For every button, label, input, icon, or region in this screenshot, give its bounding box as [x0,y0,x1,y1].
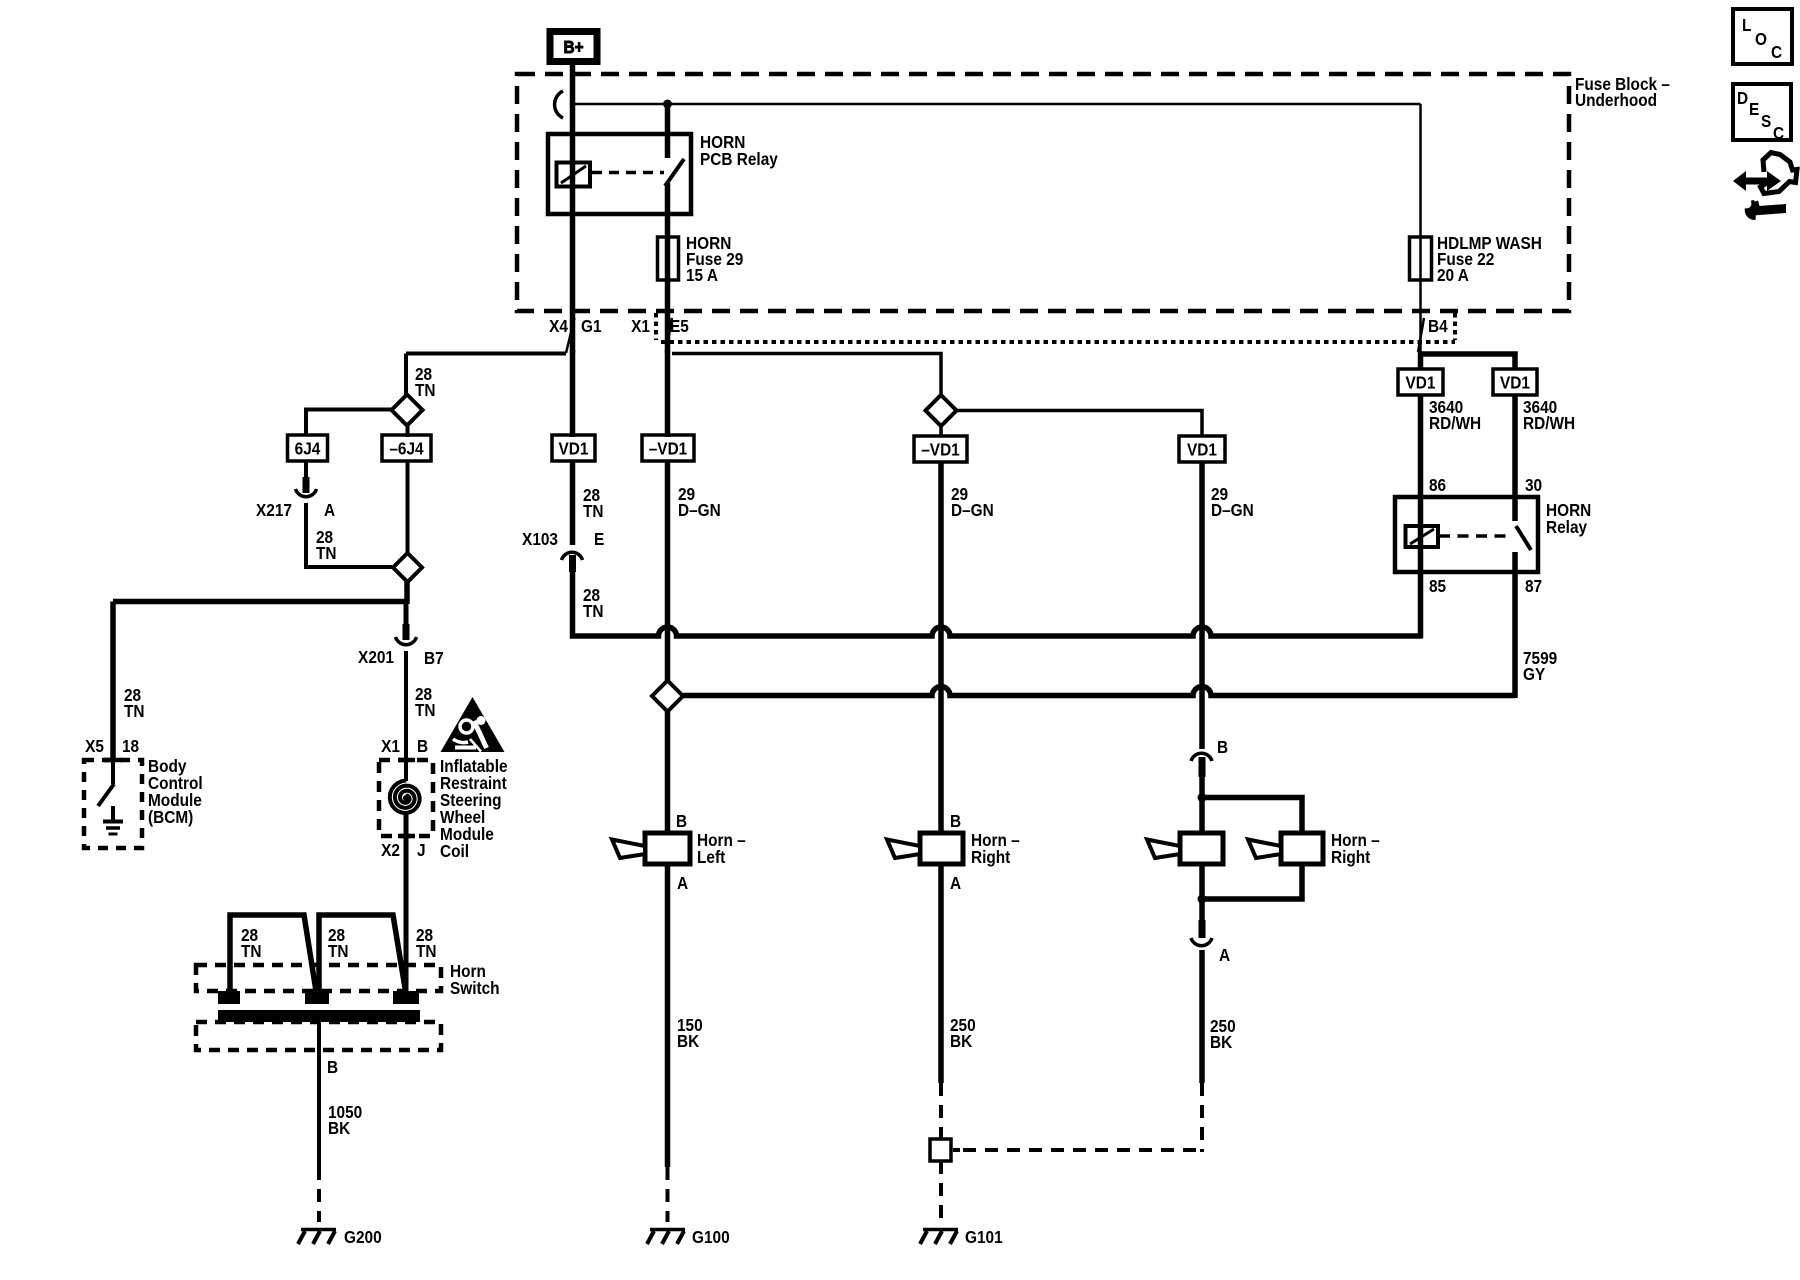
connector female cup right pair A [1191,938,1212,946]
svg-text:–VD1: –VD1 [921,441,959,460]
svg-text:L: L [1742,16,1751,35]
BCM label [148,757,203,827]
wire branch B4 to right VD1 [1421,354,1516,370]
wire S3 to -VD1 middle [939,425,943,436]
wire relay switch to horn fuse [665,183,671,353]
wire branch from X1 to middle splice [672,354,941,397]
horn PCB relay U1 box [548,134,691,214]
connector X103 labels [522,530,604,549]
wire junction to connector A [1199,899,1205,925]
horn relay coil [1406,526,1439,547]
wire B4 to left VD1 [1418,352,1424,370]
horn switch pad 1 [218,991,240,1004]
svg-text:Right: Right [1331,848,1371,867]
horn pair right trumpet [1248,840,1281,859]
svg-text:–VD1: –VD1 [649,440,687,459]
wire relay pin 85 down to rail A [1418,570,1424,639]
svg-text:X5: X5 [85,737,104,756]
svg-text:TN: TN [124,702,145,721]
svg-text:A: A [950,874,961,893]
svg-text:C: C [1771,43,1782,62]
svg-text:VD1: VD1 [1187,441,1217,460]
connector X217 female cup [296,489,317,497]
wire branch to right horn of pair [1202,798,1302,836]
horn switch label [450,962,500,998]
wire to left horn of pair [1199,797,1205,835]
svg-text:85: 85 [1429,577,1446,596]
wire right pair feed vertical [1199,462,1205,749]
connector X4 terminal G1 slant [566,318,575,353]
wire S4 down to horn left [665,711,671,835]
horn switch common bar [218,1010,420,1022]
horn switch upper dashed box [196,965,441,991]
wire label 28 TN switch 1 [241,926,262,961]
svg-text:Coil: Coil [440,842,469,861]
connector X201 labels [358,648,444,668]
coil pin tick bottom [398,834,415,839]
wire X217 to splice S2 [306,503,392,567]
svg-text:A: A [677,874,688,893]
wire VD1 to relay pin 86 [1418,395,1424,499]
connector X1 terminal E5 slant [666,318,672,353]
connector X1 pin B labels at coil [381,737,428,756]
terminal box VD1 relay pin 86 [1398,369,1443,395]
horn switch lower dashed box [196,1022,441,1050]
fuse F29 label [686,234,743,285]
wire label 150 BK [677,1016,703,1051]
connector male stub right pair A [1199,920,1206,938]
wire -6J4 down to splice S2 [406,461,410,554]
svg-text:RD/WH: RD/WH [1523,414,1575,433]
svg-text:B4: B4 [1428,317,1448,336]
svg-text:X4: X4 [549,317,569,336]
svg-text:TN: TN [583,602,604,621]
svg-text:X1: X1 [381,737,400,756]
horn pair left trumpet [1147,840,1180,859]
horn switch pad 2 [305,991,329,1004]
svg-text:B: B [417,737,428,756]
inline connector square [930,1139,951,1161]
svg-text:(BCM): (BCM) [148,808,193,827]
wire 250 BK right pair [1199,950,1205,1083]
wire -VD1 down to splice S4 [665,461,671,682]
wire label 28 TN switch 2 [328,926,349,961]
connector B4 labels [1428,317,1448,336]
wire label 3640 RD/WH left [1429,398,1481,433]
svg-text:Underhood: Underhood [1575,91,1657,110]
connector female dome right pair B [1191,753,1212,761]
fuse block label [1575,75,1670,110]
fuse F22 label [1437,234,1542,285]
horn PCB relay coil-switch dashed link [592,171,664,175]
steering coil label [440,757,508,861]
svg-text:X103: X103 [522,530,558,549]
svg-text:86: 86 [1429,476,1446,495]
svg-text:B: B [1217,738,1228,757]
horn PCB relay label [700,133,779,169]
horn right middle trumpet [887,840,920,859]
wire HDLMP wash feed vertical [1419,104,1422,353]
svg-text:30: 30 [1525,476,1542,495]
ground G200 [298,1230,336,1245]
wire X4 G1 to VD1 [570,350,576,437]
wire X1 E5 to -VD1 [665,350,671,437]
horn PCB relay switch pin stub [665,104,671,158]
horn right middle label [971,831,1020,867]
svg-text:S: S [1761,112,1771,131]
svg-text:TN: TN [583,502,604,521]
svg-text:B: B [950,812,961,831]
horn relay label [1546,501,1591,537]
wire VD1 to relay pin 30 [1512,395,1518,499]
svg-text:Right: Right [971,848,1011,867]
wire coil to horn switch [404,813,409,992]
fuse F29 HORN [658,237,679,280]
horn right middle box [920,833,963,864]
wire S2 down to X201 junction [404,581,410,604]
wire label 250 BK middle [950,1016,976,1051]
LOC legend box [1733,9,1792,64]
horn pair left box [1180,833,1223,864]
horn switch pad 3 [393,991,419,1004]
connector X2 pin J labels [381,841,425,860]
wire S1 to 6J4 [306,410,392,436]
wire label 7599 GY [1523,649,1557,684]
terminal box 6J4 [288,435,328,461]
connector X5 pin 18 labels at BCM [85,737,139,756]
svg-text:BK: BK [950,1032,972,1051]
battery feed B+ [550,32,597,62]
svg-text:PCB Relay: PCB Relay [700,150,779,169]
wire bus feed horizontal to HDLMP WASH fuse [573,103,1421,106]
svg-text:C: C [1773,124,1784,143]
wire VD1 to X103 [570,461,576,545]
horn relay switch blade [1516,526,1531,550]
svg-text:G101: G101 [965,1228,1003,1247]
svg-text:BK: BK [328,1119,350,1138]
horn switch contact 1 [230,915,316,993]
horn PCB relay coil [557,163,591,187]
svg-text:E: E [1749,100,1759,119]
svg-text:TN: TN [241,942,262,961]
wire label 1050 BK [328,1103,362,1138]
svg-text:87: 87 [1525,577,1542,596]
svg-text:VD1: VD1 [1500,374,1530,393]
svg-text:TN: TN [316,544,337,563]
wire middle horn feed vertical [938,462,944,835]
horn PCB relay switch blade [665,159,684,186]
svg-text:Relay: Relay [1546,518,1588,537]
DESC legend box [1733,84,1791,143]
wire label 28 TN below X217 [316,528,337,563]
wire label 28 TN switch 3 [416,926,437,961]
horn relay coil-switch dashed link [1439,534,1509,538]
svg-text:O: O [1755,30,1767,49]
wire label 29 D-GN on X1 wire [678,485,721,520]
svg-text:X1: X1 [631,317,650,336]
svg-text:TN: TN [416,942,437,961]
wire dashed right pair to shared ground [1200,1083,1204,1152]
wire dashed connector to right horn pair ground [953,1148,960,1152]
svg-text:B7: B7 [424,649,444,668]
svg-text:6J4: 6J4 [295,440,321,459]
horn pair right box [1281,833,1323,864]
connector X217 labels [256,501,335,520]
horn relay coil wire through [1418,499,1424,570]
wire label 3640 RD/WH right [1523,398,1575,433]
splice diamond S3 [926,395,957,426]
wire relay pin 87 down to rail B [1512,570,1518,698]
wire 28 TN branch horizontal from X4 [406,352,566,356]
wire 1050 BK [317,1022,321,1167]
wire rail B from S4 to horn relay pin 87 with hops [683,687,1515,696]
fusible element clip symbol on B+ wire [555,91,563,118]
wire rail A to horn relay pin 85 with hops [570,627,1421,636]
connector X201 terminal B7 male stub [403,624,410,640]
ground G101 [920,1230,958,1245]
wire 6J4 down to X217 [304,461,308,479]
horn left label [697,831,746,867]
clockspring coil spiral [390,781,420,814]
svg-text:VD1: VD1 [1406,374,1436,393]
wire 1050 BK dashed to ground [317,1167,321,1222]
connector male stub right pair B [1199,757,1206,777]
wire label 250 BK right pair [1210,1017,1236,1052]
svg-text:B: B [676,812,687,831]
body control module dashed box [84,760,142,848]
terminal box VD1 relay pin 30 [1493,369,1537,395]
wire 150 BK dashed to ground [666,1167,670,1222]
svg-text:–6J4: –6J4 [389,440,424,459]
wire stub to junction [1199,775,1205,799]
svg-text:15 A: 15 A [686,266,718,285]
terminal box -6J4 [382,435,431,461]
svg-text:X201: X201 [358,648,394,667]
svg-text:E5: E5 [670,317,689,336]
svg-text:G1: G1 [581,317,602,336]
SIR warning triangle [441,697,505,752]
svg-text:X2: X2 [381,841,400,860]
svg-text:TN: TN [415,701,436,720]
terminal box -VD1 middle [914,436,967,462]
svg-text:TN: TN [328,942,349,961]
svg-text:D: D [1737,89,1748,108]
svg-text:20 A: 20 A [1437,266,1469,285]
svg-text:D–GN: D–GN [951,501,994,520]
horn relay switch lower wire [1512,552,1518,570]
connector X201 female cup [396,637,417,645]
svg-text:GY: GY [1523,665,1545,684]
svg-text:G200: G200 [344,1228,382,1247]
wire X103 down to coil feed rail [570,566,576,639]
connector X217 terminal A male stub [303,477,310,493]
svg-text:J: J [417,841,426,860]
svg-text:BK: BK [1210,1033,1232,1052]
ground G100 [647,1230,685,1245]
splice diamond S1 [392,395,423,426]
svg-text:X217: X217 [256,501,292,520]
fuse F22 HDLMP WASH [1410,237,1432,280]
wire dashed connector to ground G101 [939,1161,943,1222]
wire label 28 TN BCM [124,686,145,721]
junction node top of horn pair [1198,793,1207,802]
terminal box -VD1 on X1 wire [642,435,694,461]
svg-text:A: A [1219,946,1230,965]
wire label 28 TN below X103 [583,586,604,621]
svg-text:B: B [327,1058,338,1077]
BCM internal ground [103,806,123,834]
underhood connector dotted boundary X1..B4 [656,313,1455,342]
repair icon arrows and wrench [1733,153,1797,221]
wire B+ vertical into fuse block (X4 G1 feed) [570,61,576,353]
junction node at horn relay switch feed [663,100,672,109]
horn switch contact 2 [319,915,406,993]
svg-text:B+: B+ [563,38,583,57]
wire 250 BK middle [938,864,944,1083]
wire below right horn of pair [1202,864,1302,899]
connector B4 slant [1418,318,1424,352]
wire X201 to steering coil [404,651,408,781]
terminal box VD1 on X4 wire [552,435,595,461]
horn left box [645,833,690,864]
connector X4 G1 labels [549,317,601,336]
horn relay K1 box [1395,497,1538,572]
svg-text:18: 18 [122,737,139,756]
wire jog to X201 [404,601,409,626]
wire dashed to inline connector [939,1083,943,1139]
coil pin tick top [398,758,415,763]
horn pair label [1331,831,1380,867]
wire BCM vertical [110,602,116,763]
splice diamond S4 [652,681,683,712]
svg-text:G100: G100 [692,1228,730,1247]
svg-text:BK: BK [677,1032,699,1051]
splice diamond S2 [393,553,422,582]
connector X103 terminal E male stub [569,555,576,572]
svg-text:Switch: Switch [450,979,500,998]
svg-text:E: E [594,530,604,549]
svg-text:Left: Left [697,848,726,867]
svg-text:VD1: VD1 [559,440,589,459]
BCM internal switch [98,760,114,806]
wire label 28 TN below X201 [415,685,436,720]
svg-text:A: A [324,501,335,520]
wire label 29 D-GN right pair [1211,485,1254,520]
junction node bottom of horn pair [1198,895,1207,904]
svg-text:D–GN: D–GN [678,501,721,520]
svg-text:D–GN: D–GN [1211,501,1254,520]
fuse block underhood dashed box [517,74,1569,311]
connector X103 female dome [562,552,583,560]
wire below left horn of pair [1199,864,1205,901]
wire 150 BK [665,864,671,1167]
svg-text:RD/WH: RD/WH [1429,414,1481,433]
horn relay switch pin stub [1512,499,1518,521]
terminal box VD1 right pair [1179,436,1225,462]
wire label 29 D-GN middle [951,485,994,520]
wire label 28 TN branch [415,365,436,400]
wire BCM horizontal [113,599,407,605]
wire branch down to splice diamond [404,354,408,397]
svg-text:TN: TN [415,381,436,400]
connector X1 E5 labels [631,317,689,336]
wire label 28 TN above X103 [583,486,604,521]
wire S1 to -6J4 [406,424,410,437]
steering wheel coil dashed box [379,760,433,836]
wire branch S3 to right pair VD1 [956,411,1202,437]
horn left trumpet [612,840,645,859]
BCM pin tick [104,758,122,763]
